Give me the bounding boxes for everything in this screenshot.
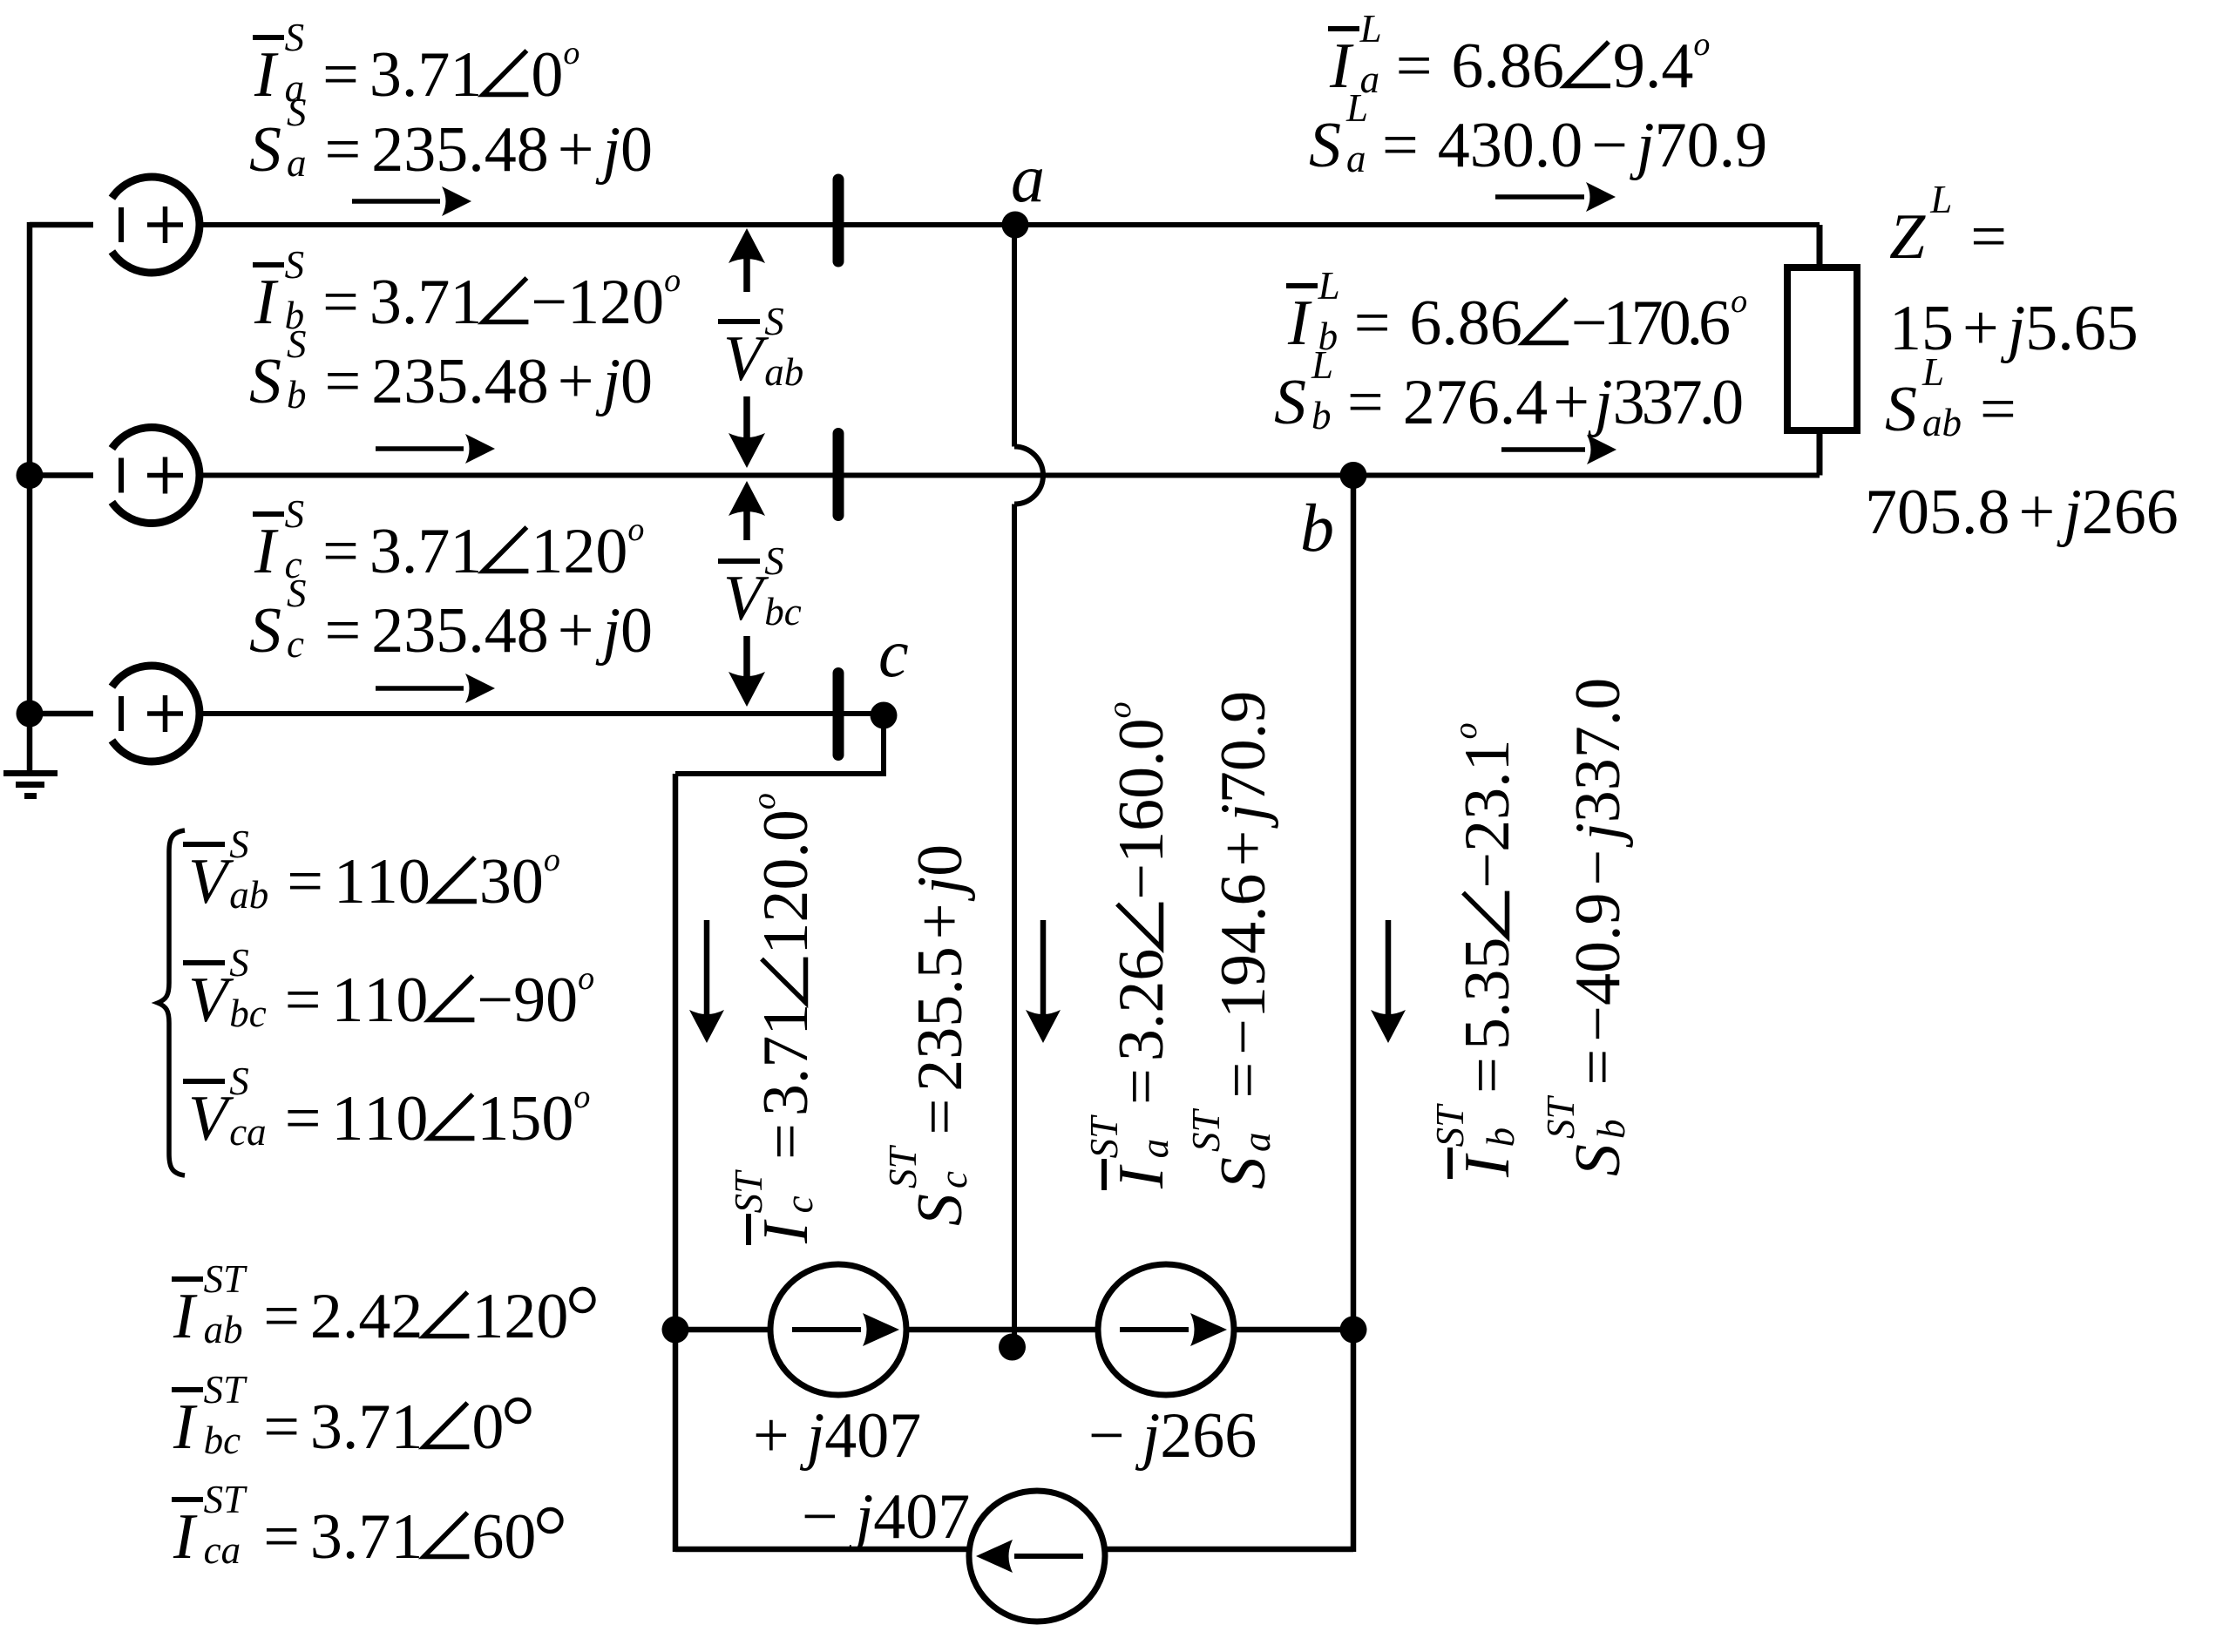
- svg-text:S: S: [249, 114, 281, 186]
- svg-text:S: S: [285, 492, 305, 536]
- svg-text:ST: ST: [727, 1169, 770, 1214]
- svg-text:235.5: 235.5: [905, 946, 976, 1092]
- svg-text:=: =: [287, 846, 323, 917]
- svg-text:a: a: [1011, 140, 1045, 216]
- svg-text:+: +: [905, 903, 976, 939]
- svg-text:70.9: 70.9: [1655, 110, 1768, 181]
- svg-text:3.71: 3.71: [369, 267, 483, 338]
- svg-text:ab: ab: [764, 350, 803, 394]
- svg-text:S: S: [287, 91, 307, 134]
- svg-text:+: +: [558, 114, 594, 186]
- svg-text:S: S: [229, 941, 249, 985]
- svg-text:+: +: [558, 595, 594, 667]
- svg-text:b: b: [287, 373, 307, 416]
- svg-text:0: 0: [905, 844, 976, 877]
- svg-text:S: S: [229, 1060, 249, 1103]
- svg-text:120: 120: [471, 1281, 568, 1352]
- svg-text:−: −: [802, 1481, 838, 1553]
- svg-text:o: o: [1447, 722, 1484, 739]
- svg-text:407: 407: [824, 1400, 921, 1472]
- svg-text:110: 110: [334, 846, 430, 917]
- svg-text:−: −: [1088, 1400, 1125, 1472]
- svg-text:0: 0: [620, 114, 653, 186]
- svg-text:=: =: [905, 1099, 976, 1135]
- svg-text:o: o: [563, 35, 579, 71]
- svg-text:S: S: [764, 300, 784, 343]
- svg-text:−160.0: −160.0: [1106, 718, 1177, 899]
- svg-text:=: =: [1354, 288, 1391, 359]
- svg-text:−: −: [1562, 850, 1634, 886]
- svg-text:bc: bc: [764, 590, 802, 633]
- svg-text:b: b: [1300, 490, 1334, 565]
- svg-text:=: =: [1106, 1068, 1177, 1105]
- svg-text:c: c: [878, 615, 909, 691]
- svg-text:235.48: 235.48: [371, 595, 549, 667]
- svg-text:I: I: [1106, 1164, 1177, 1189]
- svg-text:0: 0: [471, 1391, 504, 1463]
- svg-text:−90: −90: [477, 965, 578, 1036]
- svg-text:c: c: [777, 1195, 821, 1213]
- svg-text:L: L: [1318, 264, 1340, 308]
- svg-text:a: a: [1346, 137, 1366, 180]
- svg-text:9.4: 9.4: [1613, 30, 1694, 102]
- svg-text:=: =: [322, 39, 359, 111]
- svg-text:S: S: [1208, 1157, 1279, 1189]
- svg-text:S: S: [764, 539, 784, 583]
- svg-text:3.71: 3.71: [310, 1501, 424, 1573]
- svg-text:−: −: [1591, 110, 1628, 181]
- svg-text:+: +: [1208, 830, 1279, 867]
- svg-text:bc: bc: [204, 1418, 241, 1462]
- svg-text:407: 407: [873, 1481, 970, 1553]
- svg-text:3.26: 3.26: [1106, 949, 1177, 1062]
- svg-text:235.48: 235.48: [371, 346, 549, 417]
- svg-text:0: 0: [531, 39, 563, 111]
- svg-text:S: S: [1885, 374, 1917, 445]
- svg-text:ST: ST: [204, 1478, 248, 1521]
- svg-text:S: S: [1562, 1144, 1634, 1176]
- svg-text:110: 110: [331, 1083, 428, 1154]
- svg-text:60: 60: [471, 1501, 536, 1573]
- svg-text:+: +: [1962, 293, 1999, 364]
- svg-text:2.42: 2.42: [310, 1281, 424, 1352]
- svg-text:S: S: [285, 16, 305, 59]
- svg-text:0: 0: [620, 346, 653, 417]
- svg-text:ab: ab: [204, 1308, 243, 1351]
- svg-text:3.71: 3.71: [750, 1004, 822, 1117]
- svg-text:ST: ST: [1082, 1114, 1126, 1159]
- svg-text:o: o: [664, 262, 681, 299]
- svg-text:ST: ST: [204, 1368, 248, 1412]
- svg-text:I: I: [750, 1219, 822, 1244]
- svg-text:S: S: [285, 243, 305, 287]
- svg-text:=: =: [1970, 201, 2007, 273]
- svg-text:−170.6: −170.6: [1571, 288, 1729, 359]
- svg-text:266: 266: [1160, 1400, 1257, 1472]
- svg-text:L: L: [1921, 350, 1944, 394]
- svg-text:o: o: [578, 960, 594, 997]
- svg-text:430.0: 430.0: [1438, 110, 1583, 181]
- svg-text:120: 120: [531, 516, 627, 587]
- svg-text:ST: ST: [204, 1257, 248, 1301]
- svg-text:=: =: [1452, 1057, 1523, 1093]
- svg-text:=: =: [263, 1501, 300, 1573]
- svg-text:I: I: [173, 1501, 198, 1573]
- svg-text:=: =: [263, 1391, 300, 1463]
- svg-text:−40.9: −40.9: [1562, 892, 1634, 1041]
- svg-text:=: =: [1347, 367, 1384, 438]
- svg-text:o: o: [544, 842, 560, 878]
- svg-text:=: =: [285, 965, 322, 1036]
- svg-text:S: S: [287, 322, 307, 366]
- svg-text:=: =: [750, 1123, 822, 1160]
- svg-text:o: o: [573, 1079, 590, 1115]
- svg-text:=: =: [325, 595, 362, 667]
- svg-text:5.35: 5.35: [1452, 938, 1523, 1051]
- svg-text:=: =: [325, 346, 362, 417]
- svg-text:+: +: [2019, 477, 2056, 548]
- svg-text:L: L: [1359, 7, 1382, 51]
- svg-text:=: =: [322, 516, 359, 587]
- svg-text:L: L: [1345, 86, 1368, 130]
- svg-text:I: I: [173, 1391, 198, 1463]
- svg-text:=: =: [1396, 30, 1433, 102]
- svg-text:bc: bc: [229, 992, 267, 1035]
- svg-text:o: o: [1731, 283, 1747, 320]
- svg-text:ca: ca: [229, 1110, 266, 1154]
- svg-text:o: o: [1693, 26, 1710, 63]
- svg-text:I: I: [173, 1281, 198, 1352]
- svg-text:V: V: [723, 563, 769, 634]
- svg-text:=: =: [1208, 1062, 1279, 1099]
- svg-text:+: +: [1553, 367, 1589, 438]
- svg-text:6.86: 6.86: [1409, 288, 1522, 359]
- svg-text:b: b: [1589, 1120, 1633, 1140]
- svg-text:I: I: [254, 516, 279, 587]
- svg-text:=: =: [325, 114, 362, 186]
- svg-text:337.0: 337.0: [1562, 678, 1634, 823]
- svg-text:120.0: 120.0: [750, 809, 822, 955]
- svg-text:L: L: [1311, 343, 1333, 387]
- svg-text:ab: ab: [229, 873, 268, 917]
- svg-text:=: =: [263, 1281, 300, 1352]
- svg-text:=: =: [322, 267, 359, 338]
- svg-text:ST: ST: [1428, 1103, 1472, 1148]
- svg-text:a: a: [1133, 1139, 1176, 1159]
- svg-text:−120: −120: [531, 267, 664, 338]
- svg-text:S: S: [249, 595, 281, 667]
- svg-text:c: c: [287, 622, 304, 666]
- svg-text:V: V: [188, 1083, 234, 1154]
- svg-text:ca: ca: [204, 1528, 241, 1572]
- svg-text:=: =: [1562, 1049, 1634, 1086]
- svg-text:ST: ST: [1539, 1095, 1583, 1140]
- svg-text:V: V: [188, 846, 234, 917]
- svg-text:+: +: [558, 346, 594, 417]
- svg-text:b: b: [1479, 1127, 1522, 1148]
- svg-text:S: S: [287, 572, 307, 615]
- svg-text:c: c: [932, 1171, 975, 1188]
- svg-text:−194.6: −194.6: [1208, 873, 1279, 1054]
- svg-text:S: S: [229, 823, 249, 866]
- svg-text:6.86: 6.86: [1451, 30, 1564, 102]
- svg-text:Z: Z: [1889, 201, 1926, 273]
- svg-text:276.4: 276.4: [1403, 367, 1549, 438]
- svg-text:V: V: [188, 965, 234, 1036]
- svg-text:+: +: [753, 1400, 790, 1472]
- svg-text:o: o: [746, 793, 783, 809]
- svg-text:705.8: 705.8: [1865, 477, 2010, 548]
- svg-text:I: I: [254, 267, 279, 338]
- svg-text:3.71: 3.71: [369, 39, 483, 111]
- svg-text:I: I: [1287, 288, 1312, 359]
- svg-text:=: =: [1980, 374, 2016, 445]
- svg-text:3.71: 3.71: [369, 516, 483, 587]
- svg-text:266: 266: [2082, 477, 2179, 548]
- svg-text:o: o: [627, 511, 644, 548]
- svg-text:5.65: 5.65: [2025, 293, 2138, 364]
- svg-text:a: a: [287, 141, 307, 185]
- svg-text:30: 30: [479, 846, 544, 917]
- svg-text:L: L: [1929, 178, 1952, 221]
- svg-text:b: b: [1311, 394, 1332, 437]
- svg-text:I: I: [254, 39, 279, 111]
- svg-text:ST: ST: [1184, 1108, 1228, 1153]
- svg-text:a: a: [1235, 1133, 1278, 1153]
- svg-text:=: =: [1382, 110, 1419, 181]
- svg-text:110: 110: [331, 965, 428, 1036]
- svg-text:S: S: [1274, 367, 1306, 438]
- svg-text:o: o: [1101, 701, 1138, 718]
- svg-text:ab: ab: [1922, 401, 1962, 444]
- svg-text:235.48: 235.48: [371, 114, 549, 186]
- svg-text:=: =: [285, 1083, 322, 1154]
- svg-text:ST: ST: [881, 1145, 925, 1189]
- svg-text:I: I: [1452, 1153, 1523, 1178]
- svg-text:337.0: 337.0: [1613, 367, 1743, 438]
- svg-text:S: S: [905, 1194, 976, 1226]
- svg-text:V: V: [723, 323, 769, 395]
- svg-text:0: 0: [620, 595, 653, 667]
- svg-text:3.71: 3.71: [310, 1391, 424, 1463]
- svg-text:−23.1: −23.1: [1452, 739, 1523, 888]
- svg-text:S: S: [1309, 110, 1341, 181]
- svg-text:150: 150: [477, 1083, 573, 1154]
- svg-text:70.9: 70.9: [1208, 691, 1279, 804]
- svg-text:S: S: [249, 346, 281, 417]
